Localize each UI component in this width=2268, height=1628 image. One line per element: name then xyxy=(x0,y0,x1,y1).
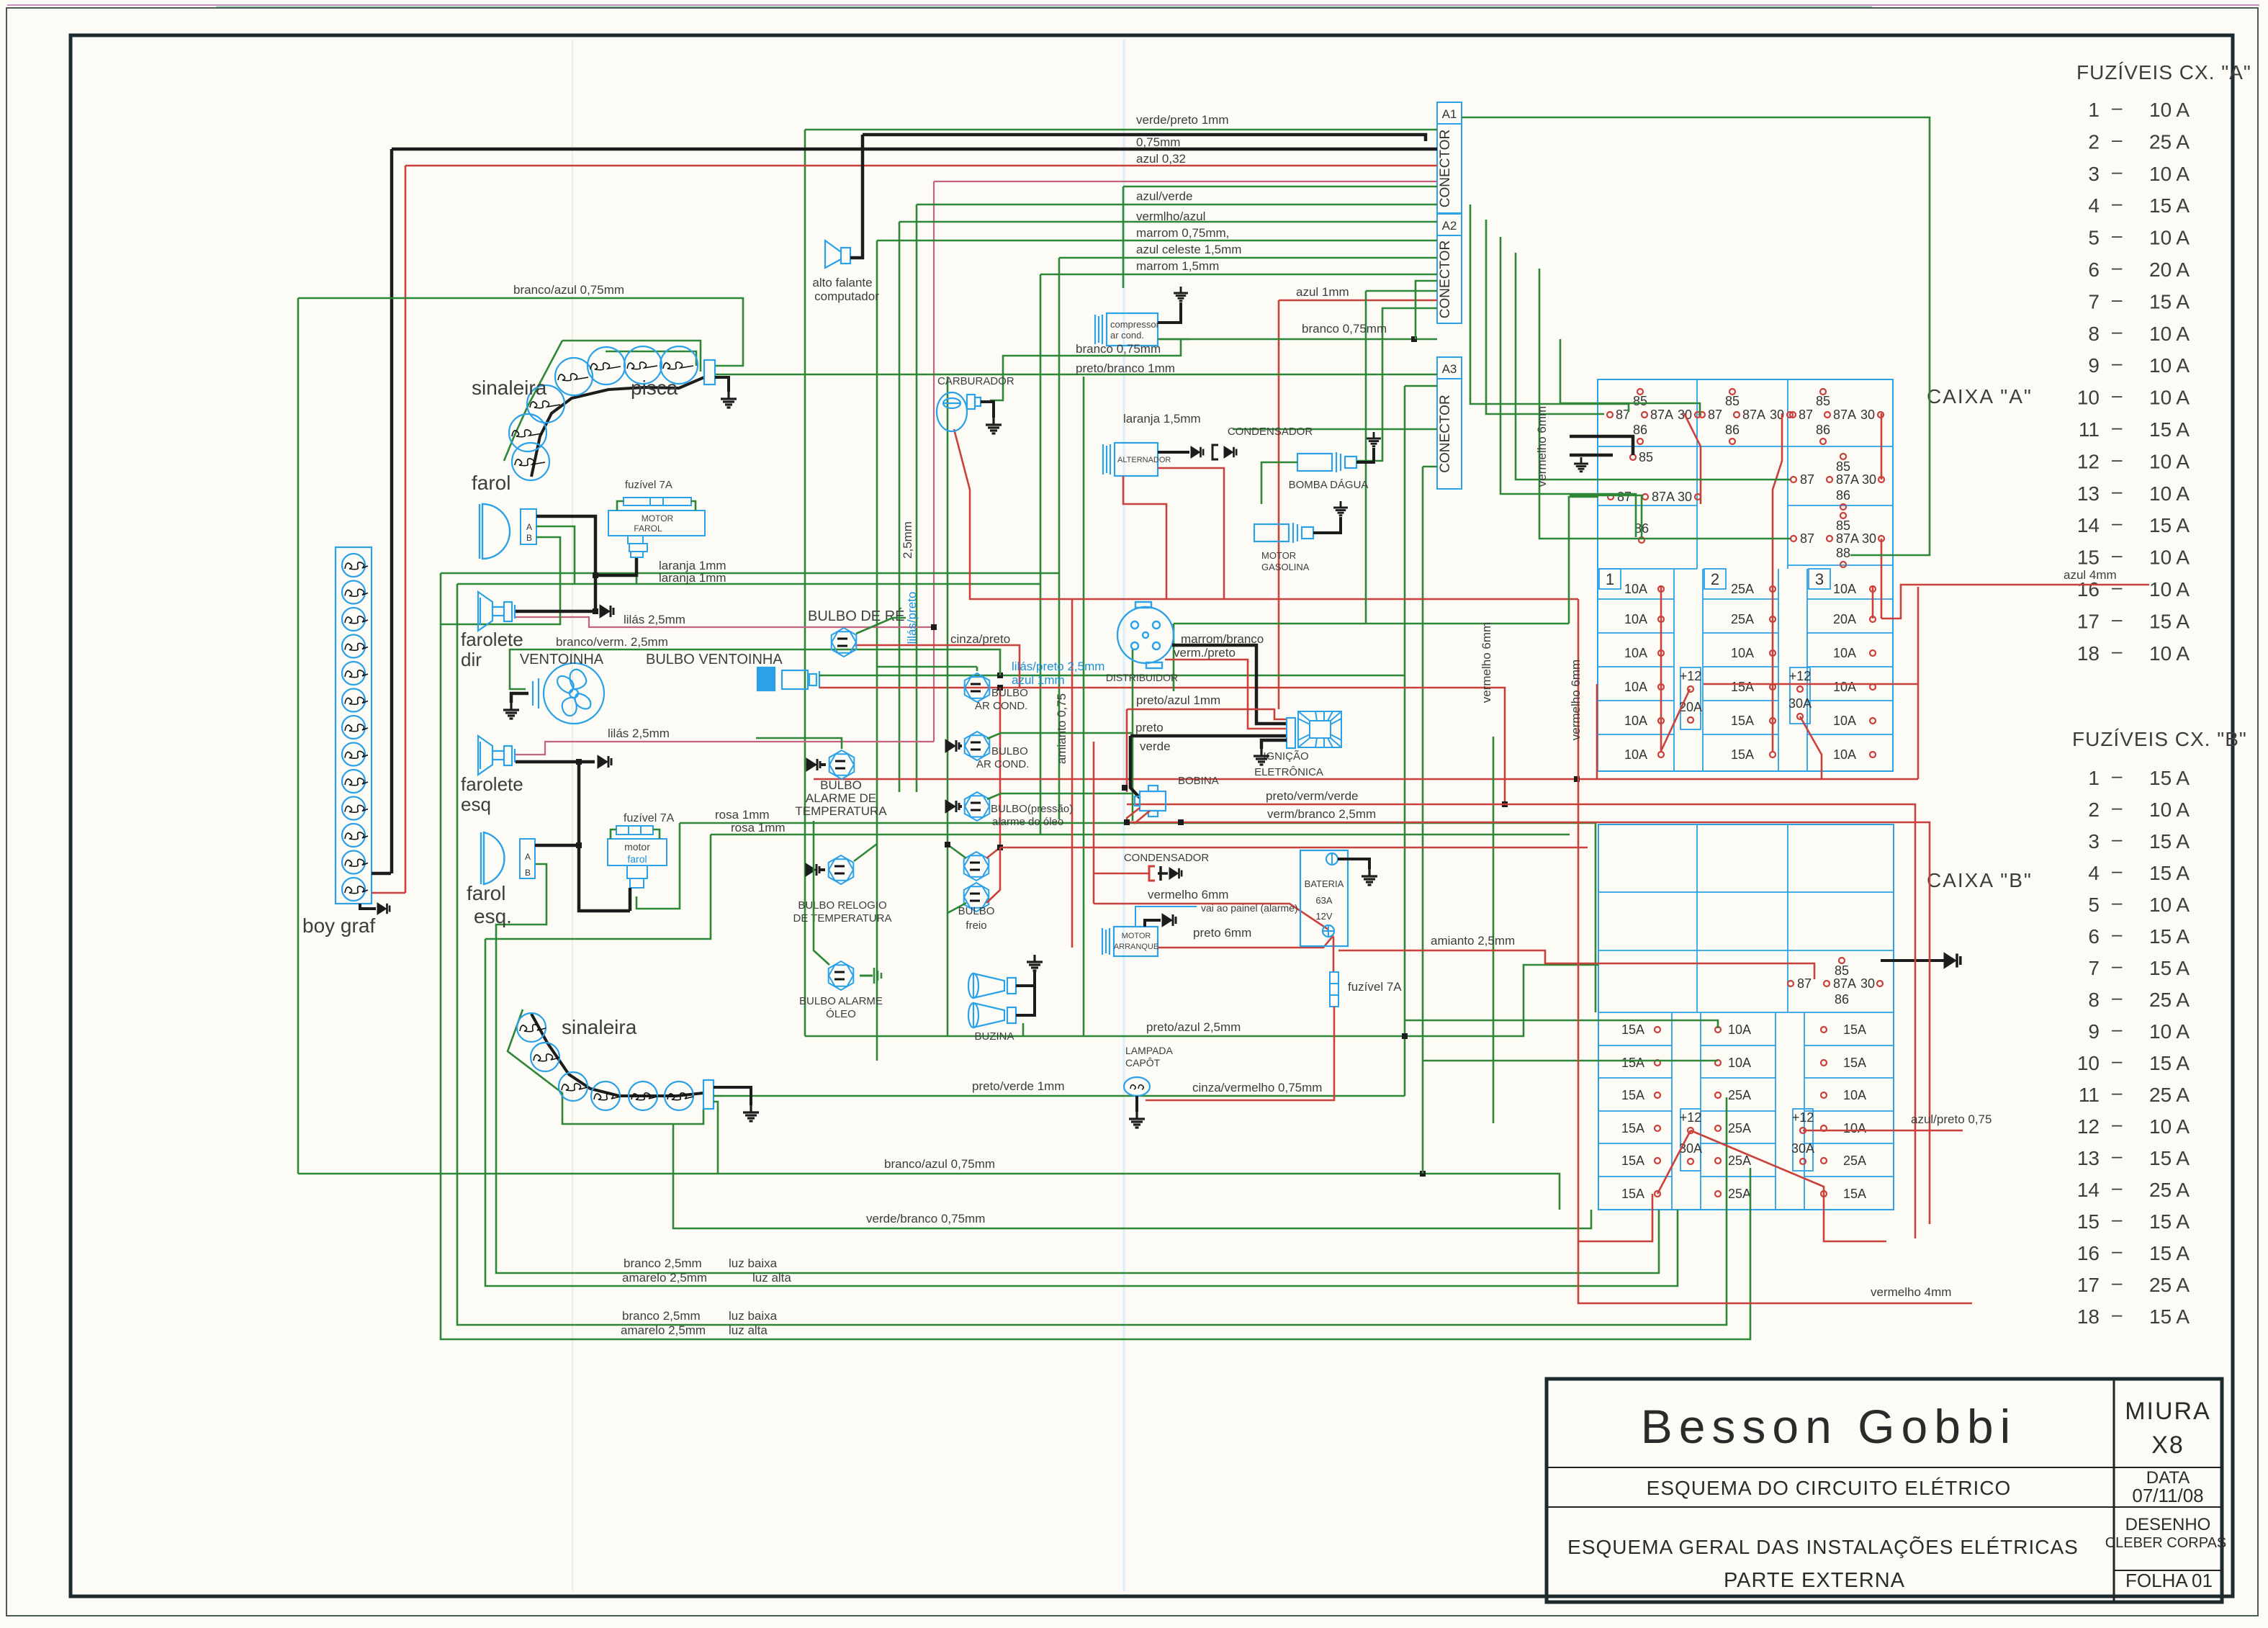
wire azul 0,32 red xyxy=(405,165,1437,167)
svg-text:16: 16 xyxy=(2077,1242,2100,1264)
wire branco/azul 0,75mm bottom xyxy=(298,1174,1560,1210)
wire azul 1mm red ventoinha xyxy=(822,688,1505,804)
svg-text:15: 15 xyxy=(2077,1210,2100,1233)
svg-text:30A: 30A xyxy=(1679,1141,1702,1156)
svg-text:15 A: 15 A xyxy=(2149,830,2190,853)
greens connectors to caixa A L5 xyxy=(1539,269,1791,539)
svg-text:–: – xyxy=(2112,352,2123,374)
wire green into caixa B row1 xyxy=(1405,1020,1718,1028)
svg-text:luz baixa: luz baixa xyxy=(729,1256,778,1270)
relay A-2a terminals xyxy=(1729,389,1735,395)
svg-text:luz alta: luz alta xyxy=(729,1323,768,1337)
svg-text:10A: 10A xyxy=(1624,680,1647,694)
condensador mid red link xyxy=(1094,873,1149,875)
motor arranque box xyxy=(1102,927,1158,956)
lamp sinaleira bottom xyxy=(629,1081,657,1110)
svg-text:10 A: 10 A xyxy=(2149,799,2190,821)
farol esq AB box xyxy=(520,839,535,878)
wire cinza/vermelho 0,75mm xyxy=(1146,1007,1334,1100)
motor gasolina pump xyxy=(1254,523,1313,543)
lamp pisca xyxy=(624,346,662,384)
wire laranja 1mm upper xyxy=(441,572,1059,575)
svg-text:30A: 30A xyxy=(1788,696,1812,711)
svg-text:15A: 15A xyxy=(1731,680,1754,694)
svg-text:azul/preto 0,75: azul/preto 0,75 xyxy=(1911,1112,1992,1126)
wire rosa 1mm line right xyxy=(680,822,1596,824)
svg-text:–: – xyxy=(2112,1272,2123,1293)
svg-text:87: 87 xyxy=(1800,531,1814,546)
svg-text:CONDENSADOR: CONDENSADOR xyxy=(1228,426,1313,438)
bulbo ventoinha symbol xyxy=(757,667,819,691)
svg-text:–: – xyxy=(2112,480,2123,502)
svg-text:12V: 12V xyxy=(1315,911,1332,922)
svg-text:ÓLEO: ÓLEO xyxy=(826,1008,856,1020)
bulbo ar cond 2 xyxy=(965,732,990,760)
svg-text:ALARME DE: ALARME DE xyxy=(806,791,876,805)
distribuidor xyxy=(1117,602,1174,668)
buzina green xyxy=(1022,1023,1025,1036)
svg-text:amianto 2,5mm: amianto 2,5mm xyxy=(1431,934,1515,948)
svg-text:ALTERNADOR: ALTERNADOR xyxy=(1117,456,1171,464)
wire verm/branco 2,5mm xyxy=(1127,822,1930,1224)
svg-text:boy graf: boy graf xyxy=(302,914,375,937)
svg-text:25 A: 25 A xyxy=(2149,1274,2190,1296)
motor farol dir stack black xyxy=(595,557,636,575)
svg-text:10A: 10A xyxy=(1728,1056,1751,1070)
svg-text:A1: A1 xyxy=(1442,107,1457,121)
svg-text:10A: 10A xyxy=(1833,714,1856,728)
svg-text:freio: freio xyxy=(966,919,986,932)
svg-text:10 A: 10 A xyxy=(2149,1115,2190,1138)
svg-text:10 A: 10 A xyxy=(2149,387,2190,409)
svg-text:25A: 25A xyxy=(1728,1088,1751,1102)
wire rosa 1mm upper feed xyxy=(636,823,680,909)
svg-text:10 A: 10 A xyxy=(2149,578,2190,601)
wire red right loop under caixa A xyxy=(1596,684,1598,779)
svg-text:esq: esq xyxy=(461,793,491,815)
wire red caixa A col1 xyxy=(1660,585,1662,751)
svg-text:10A: 10A xyxy=(1843,1088,1866,1102)
svg-text:rosa 1mm: rosa 1mm xyxy=(731,821,786,835)
buzina horn 1 xyxy=(968,973,1016,998)
svg-text:CARBURADOR: CARBURADOR xyxy=(937,375,1014,387)
svg-text:VENTOINHA: VENTOINHA xyxy=(520,652,604,667)
svg-text:10 A: 10 A xyxy=(2149,354,2190,377)
wire verm./preto red xyxy=(1165,660,1287,729)
svg-text:+12: +12 xyxy=(1792,1110,1814,1125)
pisca ground wire xyxy=(715,377,729,392)
wire green 428 bomba dagua xyxy=(1356,308,1437,461)
bulbo alarme temp green xyxy=(756,738,842,749)
condensador mid symbol xyxy=(1149,866,1155,881)
svg-text:lilás/preto: lilás/preto xyxy=(905,592,919,644)
svg-text:8: 8 xyxy=(2088,323,2100,345)
svg-text:13: 13 xyxy=(2077,482,2100,505)
svg-text:DISTRIBUIDOR: DISTRIBUIDOR xyxy=(1106,672,1178,683)
lamp pisca xyxy=(509,414,546,451)
svg-text:1: 1 xyxy=(1606,570,1614,588)
svg-text:14: 14 xyxy=(2077,514,2100,536)
farol dir wiring black xyxy=(536,516,595,611)
svg-text:FAROL: FAROL xyxy=(634,523,662,534)
sinaleira top black arc xyxy=(531,377,704,477)
svg-text:branco 2,5mm: branco 2,5mm xyxy=(622,1309,701,1323)
svg-text:15 A: 15 A xyxy=(2149,610,2190,632)
wire red vertical 1389 xyxy=(999,688,1002,847)
svg-text:85: 85 xyxy=(1816,394,1830,408)
svg-text:BATERIA: BATERIA xyxy=(1305,878,1344,889)
svg-text:10 A: 10 A xyxy=(2149,1020,2190,1043)
ground arrow right of relay B xyxy=(1881,959,1944,962)
lamp sinaleira bottom xyxy=(517,1013,546,1042)
bateria box xyxy=(1300,850,1348,946)
svg-text:10A: 10A xyxy=(1624,646,1647,660)
svg-text:MOTOR: MOTOR xyxy=(642,513,674,523)
wire green 596 laranja to A3 xyxy=(1233,428,1437,431)
bateria ground xyxy=(1338,859,1369,869)
svg-text:amianto 0,75: amianto 0,75 xyxy=(1055,693,1068,764)
svg-text:lilás 2,5mm: lilás 2,5mm xyxy=(624,613,685,626)
svg-text:15 A: 15 A xyxy=(2149,418,2190,441)
svg-text:CAPÔT: CAPÔT xyxy=(1125,1057,1161,1069)
wire amarelo 2,5mm luz alta lower xyxy=(441,573,1750,1339)
svg-text:10A: 10A xyxy=(1833,582,1856,596)
bomba dagua green xyxy=(1261,462,1297,504)
svg-text:–: – xyxy=(2112,955,2123,976)
svg-text:–: – xyxy=(2112,192,2123,214)
svg-text:15 A: 15 A xyxy=(2149,862,2190,884)
lamp boy graf xyxy=(342,554,365,577)
svg-text:15 A: 15 A xyxy=(2149,194,2190,217)
wire azul/preto 0,75 xyxy=(1803,1130,1963,1132)
svg-text:–: – xyxy=(2112,1303,2123,1325)
svg-text:–: – xyxy=(2112,416,2123,438)
wire red inside caixa A r1 xyxy=(1684,413,1701,504)
buzina horn 2 xyxy=(968,1003,1016,1027)
svg-text:ESQUEMA DO CIRCUITO ELÉTRIC: ESQUEMA DO CIRCUITO ELÉTRICO xyxy=(1647,1477,2012,1499)
wire vermelho 6mm vertical caixa A xyxy=(1578,599,1652,1241)
farol dir AB box xyxy=(521,509,536,544)
svg-text:fuzível 7A: fuzível 7A xyxy=(625,479,672,491)
svg-text:farolete: farolete xyxy=(461,773,523,795)
sinaleira bottom black arc xyxy=(531,1014,703,1096)
+12 box with 30A (caixa B left) xyxy=(1680,1109,1701,1171)
wire azul 4mm xyxy=(1881,585,2149,619)
svg-text:motor: motor xyxy=(624,841,650,853)
wire azul/verde xyxy=(917,204,1437,206)
wire black 0,75mm xyxy=(392,148,1437,151)
bulbo freio 2 xyxy=(964,883,989,912)
svg-text:1: 1 xyxy=(2088,99,2100,121)
svg-text:–: – xyxy=(2112,828,2123,850)
svg-text:87A: 87A xyxy=(1836,472,1859,487)
svg-text:preto/azul 2,5mm: preto/azul 2,5mm xyxy=(1146,1020,1241,1034)
svg-text:FOLHA: FOLHA xyxy=(2125,1570,2188,1591)
svg-text:10 A: 10 A xyxy=(2149,323,2190,345)
svg-text:15A: 15A xyxy=(1621,1153,1644,1168)
svg-text:15 A: 15 A xyxy=(2149,1242,2190,1264)
wire amarelo 2,5mm luz alta upper xyxy=(485,939,1678,1286)
lamp sinaleira bottom xyxy=(559,1072,588,1101)
svg-text:MIURA: MIURA xyxy=(2125,1398,2211,1425)
bulbo freio 1 xyxy=(964,852,989,881)
wire vermelho 4mm xyxy=(1578,1241,1972,1303)
greens connectors to caixa A L3 xyxy=(1500,237,1636,537)
wire red caixa A +12b xyxy=(1800,716,1822,779)
svg-text:–: – xyxy=(2112,1050,2123,1071)
carburador body xyxy=(937,392,981,431)
svg-text:azul 4mm: azul 4mm xyxy=(2064,568,2117,582)
svg-text:+12: +12 xyxy=(1680,669,1702,683)
svg-text:ar cond.: ar cond. xyxy=(1110,330,1144,341)
svg-text:marrom/branco: marrom/branco xyxy=(1181,632,1264,646)
scan fold line xyxy=(1123,40,1125,1591)
svg-text:BULBO RELOGIO: BULBO RELOGIO xyxy=(798,899,886,912)
svg-text:branco 0,75mm: branco 0,75mm xyxy=(1302,322,1387,336)
svg-text:–: – xyxy=(2112,1177,2123,1198)
svg-text:10 A: 10 A xyxy=(2149,482,2190,505)
svg-text:85: 85 xyxy=(1836,459,1850,474)
svg-text:ELETRÔNICA: ELETRÔNICA xyxy=(1254,766,1323,778)
svg-text:BULBO DE RÉ: BULBO DE RÉ xyxy=(808,608,904,624)
ventoinha black wire + ground xyxy=(511,693,528,703)
svg-text:30: 30 xyxy=(1862,531,1876,546)
svg-text:+12: +12 xyxy=(1789,669,1812,683)
wire cinza/preto red xyxy=(855,645,1020,688)
conector A2 xyxy=(1437,214,1462,235)
svg-text:branco/azul 0,75mm: branco/azul 0,75mm xyxy=(513,283,624,297)
+12 box with 20A (caixa A) xyxy=(1680,667,1701,729)
svg-text:01: 01 xyxy=(2192,1570,2213,1591)
svg-text:vermlho/azul: vermlho/azul xyxy=(1136,210,1205,223)
wire branco 2,5mm luz baixa lower xyxy=(457,584,1727,1325)
wire vermlho/azul xyxy=(899,221,1437,223)
svg-text:LAMPADA: LAMPADA xyxy=(1125,1045,1174,1056)
svg-text:–: – xyxy=(2112,923,2123,945)
bulbo ar cond 1 xyxy=(965,673,990,702)
svg-text:15 A: 15 A xyxy=(2149,290,2190,312)
svg-text:branco 2,5mm: branco 2,5mm xyxy=(624,1256,702,1270)
svg-text:15: 15 xyxy=(2077,547,2100,569)
+12 box with 30A (caixa A) xyxy=(1790,667,1810,724)
svg-text:85: 85 xyxy=(1725,394,1740,408)
lamp boy graf xyxy=(342,824,365,847)
svg-text:marrom 0,75mm,: marrom 0,75mm, xyxy=(1136,226,1229,240)
svg-text:vermelho 6mm: vermelho 6mm xyxy=(1535,406,1549,487)
svg-text:11: 11 xyxy=(2079,1084,2100,1106)
svg-text:AR COND.: AR COND. xyxy=(975,700,1027,712)
svg-text:B: B xyxy=(526,533,532,543)
svg-text:AR COND.: AR COND. xyxy=(976,758,1029,770)
svg-text:30: 30 xyxy=(1678,490,1692,504)
green 86 relay A1b xyxy=(1570,495,1642,537)
svg-text:–: – xyxy=(2112,1145,2123,1166)
alto falante computador speaker xyxy=(825,240,850,268)
svg-text:–: – xyxy=(2112,640,2123,662)
svg-text:25A: 25A xyxy=(1728,1187,1751,1201)
svg-text:3: 3 xyxy=(2088,830,2100,853)
wire azul celeste 1,5mm xyxy=(1059,257,1437,259)
svg-text:BULBO: BULBO xyxy=(820,778,862,792)
ventoinha fan xyxy=(544,663,604,724)
svg-text:20 A: 20 A xyxy=(2149,258,2190,281)
svg-text:10A: 10A xyxy=(1843,1121,1866,1135)
vai ao painel line xyxy=(1135,907,1197,927)
svg-text:laranja 1,5mm: laranja 1,5mm xyxy=(1123,412,1201,426)
svg-text:sinaleira: sinaleira xyxy=(562,1016,637,1038)
farolete esq symbol xyxy=(478,736,515,775)
svg-text:–: – xyxy=(2112,225,2123,246)
svg-text:87: 87 xyxy=(1797,976,1812,991)
svg-text:verde: verde xyxy=(1140,739,1171,753)
svg-text:preto/verde 1mm: preto/verde 1mm xyxy=(972,1079,1065,1093)
wire branco 2,5mm luz baixa upper xyxy=(496,864,1659,1273)
bomba dagua pump xyxy=(1297,452,1356,472)
svg-text:17: 17 xyxy=(2077,1274,2100,1296)
svg-text:15 A: 15 A xyxy=(2149,1210,2190,1233)
svg-text:10A: 10A xyxy=(1624,714,1647,728)
svg-text:25A: 25A xyxy=(1728,1121,1751,1135)
boy graf feed black xyxy=(372,872,391,876)
svg-text:30: 30 xyxy=(1860,976,1875,991)
caixa B box outline xyxy=(1598,824,1894,1210)
lamp boy graf xyxy=(342,662,365,685)
lamp boy graf xyxy=(342,608,365,631)
svg-text:–: – xyxy=(2112,1240,2123,1262)
svg-text:87A: 87A xyxy=(1833,408,1856,422)
svg-text:15A: 15A xyxy=(1621,1121,1644,1135)
svg-text:30A: 30A xyxy=(1791,1141,1814,1156)
svg-text:A: A xyxy=(526,522,532,532)
lamp sinaleira bottom xyxy=(591,1081,620,1110)
svg-text:10 A: 10 A xyxy=(2149,227,2190,249)
svg-text:87A: 87A xyxy=(1833,976,1856,991)
wire marrom 0,75mm xyxy=(877,240,1437,242)
wire red carburador to caixa A xyxy=(954,429,1578,599)
svg-text:15 A: 15 A xyxy=(2149,1147,2190,1169)
wire verde/branco 0,75mm xyxy=(673,1124,1591,1228)
svg-text:4: 4 xyxy=(2088,862,2100,884)
svg-text:10A: 10A xyxy=(1728,1022,1751,1037)
svg-text:9: 9 xyxy=(2088,354,2100,377)
svg-text:1: 1 xyxy=(2088,767,2100,789)
svg-text:BULBO: BULBO xyxy=(991,687,1028,699)
caixa A box outline xyxy=(1598,379,1893,771)
lamp pisca xyxy=(588,347,625,384)
wire preto/azul 1mm red xyxy=(1127,709,1287,719)
svg-text:10: 10 xyxy=(2077,387,2100,409)
svg-text:–: – xyxy=(2112,986,2123,1008)
A2 jog 390 xyxy=(1416,281,1437,339)
wire red caixa A 15A row xyxy=(1704,683,1918,685)
bulbo pressao alarme do oleo xyxy=(965,792,990,821)
svg-text:CONECTOR: CONECTOR xyxy=(1438,395,1453,472)
svg-text:10A: 10A xyxy=(1624,747,1647,762)
lamp pisca xyxy=(555,358,593,395)
motor farol dir stack feed xyxy=(636,557,638,584)
boy graf ground xyxy=(360,904,376,909)
svg-text:–: – xyxy=(2112,1208,2123,1230)
svg-text:farolete: farolete xyxy=(461,629,523,650)
svg-text:11: 11 xyxy=(2079,418,2100,441)
motor farol dir fuse hooks xyxy=(617,501,624,511)
svg-text:2,5mm: 2,5mm xyxy=(901,521,914,559)
greens connectors to caixa A L2 xyxy=(1486,220,1604,414)
wire lilas pink top xyxy=(934,181,1437,182)
svg-text:farol: farol xyxy=(627,853,647,865)
wire branco/verm 2,5mm xyxy=(510,649,1000,689)
svg-text:13: 13 xyxy=(2077,1147,2100,1169)
bomba dagua ground xyxy=(1356,448,1374,462)
svg-text:15 A: 15 A xyxy=(2149,1305,2190,1328)
bulbo relogio green xyxy=(854,844,877,861)
svg-text:–: – xyxy=(2112,256,2123,278)
svg-text:branco 0,75mm: branco 0,75mm xyxy=(1076,342,1161,356)
svg-text:–: – xyxy=(2112,384,2123,406)
svg-text:87: 87 xyxy=(1708,408,1722,422)
svg-text:–: – xyxy=(2112,544,2123,566)
svg-text:luz baixa: luz baixa xyxy=(729,1309,778,1323)
motor arranque ground black xyxy=(1145,920,1161,927)
greens connectors to caixa A L6 xyxy=(1560,339,1700,415)
black into caixa A xyxy=(1570,436,1633,455)
svg-text:luz alta: luz alta xyxy=(752,1271,791,1285)
wire red 30 relay A3b xyxy=(1881,413,1883,480)
wire green 404 motor gasolina xyxy=(1366,290,1437,292)
svg-text:85: 85 xyxy=(1835,963,1849,978)
svg-text:IGNIÇÃO: IGNIÇÃO xyxy=(1263,750,1308,763)
wire red diag caixa B left xyxy=(1657,1130,1691,1194)
wire red 30 relay A3c down xyxy=(1881,539,1883,619)
svg-text:azul 0,32: azul 0,32 xyxy=(1136,152,1186,166)
svg-text:preto: preto xyxy=(1135,721,1164,734)
ignicao eletronica xyxy=(1287,718,1295,748)
svg-text:preto/azul 1mm: preto/azul 1mm xyxy=(1136,693,1220,707)
sinaleira bottom green outline xyxy=(508,1009,703,1124)
wire rosa 1mm lower feed xyxy=(711,834,1570,836)
svg-text:0,75mm: 0,75mm xyxy=(1136,135,1180,149)
green motor gasolina drop xyxy=(1174,623,1569,625)
svg-text:esq.: esq. xyxy=(474,905,512,927)
svg-text:azul celeste 1,5mm: azul celeste 1,5mm xyxy=(1136,243,1241,256)
svg-text:87A: 87A xyxy=(1652,490,1675,504)
svg-text:85: 85 xyxy=(1836,518,1850,533)
lamp boy graf xyxy=(342,743,365,766)
ground caixa A xyxy=(1574,457,1588,472)
svg-text:25A: 25A xyxy=(1728,1153,1751,1168)
sinaleira bottom connector xyxy=(703,1080,714,1109)
wire marrom 1,5mm xyxy=(1040,274,1437,276)
svg-text:5: 5 xyxy=(2088,227,2100,249)
svg-text:CONDENSADOR: CONDENSADOR xyxy=(1124,852,1210,864)
lamp pisca xyxy=(527,385,564,423)
bulbo alarme oleo green cone xyxy=(860,975,873,977)
wire red vertical 1489 xyxy=(1071,599,1074,948)
svg-text:farol: farol xyxy=(467,882,505,904)
svg-text:lilás/preto 2,5mm: lilás/preto 2,5mm xyxy=(1012,660,1104,673)
svg-text:3: 3 xyxy=(2088,163,2100,185)
svg-text:2: 2 xyxy=(2088,799,2100,821)
svg-text:amarelo 2,5mm: amarelo 2,5mm xyxy=(621,1323,706,1337)
farol dir headlamp xyxy=(480,504,510,559)
sinaleira bottom wires xyxy=(714,1087,751,1105)
motor farol esq black drop xyxy=(629,888,632,911)
pisca connector xyxy=(704,360,715,384)
svg-text:fuzível 7A: fuzível 7A xyxy=(1348,980,1402,994)
svg-text:Besson Gobbi: Besson Gobbi xyxy=(1641,1400,2017,1453)
wire laranja 1mm lower xyxy=(457,583,1040,585)
svg-text:–: – xyxy=(2112,1081,2123,1103)
